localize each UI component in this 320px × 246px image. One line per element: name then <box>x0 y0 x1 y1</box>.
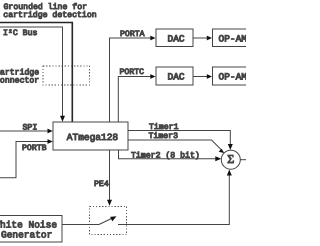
svg-text:I²C Bus: I²C Bus <box>3 29 37 38</box>
switch dashed box <box>90 207 127 235</box>
wire PE4 from ATmega128 bottom to switch box <box>109 150 111 200</box>
svg-text:cartridge detection: cartridge detection <box>3 11 96 20</box>
ATmega128 box <box>53 122 128 150</box>
arrowhead PORTA into DAC1 <box>150 36 155 41</box>
arrowhead Timer2 into summer left <box>215 156 221 161</box>
svg-text:Generator: Generator <box>1 229 52 240</box>
arrowhead PORTB <box>48 139 53 144</box>
wire PORTA from ATmega128 top to DAC1 <box>110 38 152 122</box>
wire Timer3 from ATmega128 right, diagonal to summer <box>128 140 221 150</box>
wire summer output right <box>240 159 246 161</box>
svg-text:DAC: DAC <box>168 72 185 83</box>
arrowhead I2C into ATmega128 top <box>60 116 65 122</box>
wire White Noise Generator output to switch <box>62 224 99 226</box>
svg-text:Σ: Σ <box>227 152 234 166</box>
svg-text:PORTC: PORTC <box>120 68 145 77</box>
svg-text:Connector: Connector <box>0 77 39 86</box>
summing junction circle <box>221 150 240 169</box>
svg-text:PORTB: PORTB <box>22 144 47 153</box>
cartridge connector dashed box <box>43 66 90 85</box>
arrowhead Timer1 into summer top <box>228 144 233 150</box>
wire DAC2 to OP-AMP2 <box>193 76 208 78</box>
svg-text:OP-AMP: OP-AMP <box>219 33 247 44</box>
arrowhead switch arm <box>110 216 116 221</box>
DAC2 box <box>156 67 193 85</box>
DAC1 box <box>156 29 193 47</box>
arrowhead PE4 into switch box <box>107 200 112 206</box>
wire switch output to summer bottom <box>118 175 229 225</box>
wire Timer1 from ATmega128 right to summer top <box>128 131 231 145</box>
svg-text:PE4: PE4 <box>94 180 109 189</box>
White Noise Generator box <box>0 216 62 242</box>
svg-text:OP-AMP: OP-AMP <box>219 72 247 83</box>
OP-AMP1 box <box>212 29 254 47</box>
arrowhead into OP-AMP2 <box>207 74 212 79</box>
wire I2C bus (horizontal + vertical) <box>0 27 63 117</box>
wire SPI into ATmega128 left <box>0 130 48 132</box>
switch arm diagonal <box>99 218 113 225</box>
svg-text:PORTA: PORTA <box>120 30 145 39</box>
svg-text:ATmega128: ATmega128 <box>67 132 119 143</box>
OP-AMP2 box <box>212 67 254 85</box>
wire Timer2 from ATmega128 bottom step to summer left <box>119 150 217 159</box>
arrowhead into OP-AMP1 <box>207 36 212 41</box>
arrowhead Timer3 into summer upper-left <box>219 149 225 153</box>
wire DAC1 to OP-AMP1 <box>193 37 208 39</box>
svg-text:DAC: DAC <box>168 33 185 44</box>
wire grounded line (horizontal + vertical into ATmega128 top) <box>0 23 72 123</box>
wire PORTB (to ATmega128 left and down/left exit) <box>0 142 48 178</box>
wire PORTC from ATmega128 top to DAC2 <box>118 77 151 123</box>
arrowhead PORTC into DAC2 <box>150 74 155 79</box>
arrowhead into summer bottom <box>227 170 232 176</box>
arrowhead SPI <box>48 129 53 134</box>
